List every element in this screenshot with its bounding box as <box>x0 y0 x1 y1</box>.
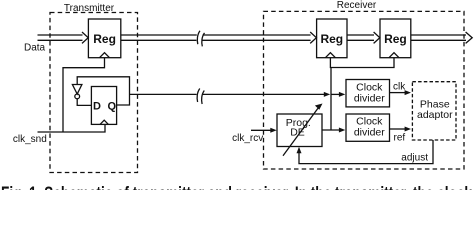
wire inverter output to D input <box>77 99 91 106</box>
svg-text:Fig. 1. Schematic of transmitt: Fig. 1. Schematic of transmitter and rec… <box>1 184 472 190</box>
arrowhead clock into node <box>324 92 330 97</box>
svg-text:Reg: Reg <box>93 32 116 46</box>
svg-text:Receiver: Receiver <box>337 0 377 11</box>
svg-text:divider: divider <box>354 127 385 139</box>
bus wire TX Reg to RX Reg1 <box>121 32 317 43</box>
clock divider 2 <box>346 114 390 141</box>
svg-text:Data: Data <box>24 43 46 54</box>
wire clk_rcv input <box>251 129 272 131</box>
long clock wire TX to RX <box>130 93 327 95</box>
break symbol on data bus <box>197 31 204 47</box>
break symbol on clock wire <box>197 89 204 105</box>
svg-text:Transmitter: Transmitter <box>64 3 115 14</box>
wire RX register clocks <box>330 58 394 68</box>
data input bus arrow <box>38 32 89 43</box>
svg-text:clk: clk <box>393 81 406 92</box>
svg-text:Reg: Reg <box>320 32 343 46</box>
wire clock node vertical <box>330 68 332 131</box>
wire Prog DE output to clock divider 2 <box>322 129 340 131</box>
svg-text:D: D <box>93 101 101 113</box>
wire clk_snd <box>38 124 106 132</box>
clock divider 1 <box>346 80 390 107</box>
svg-text:clk_rcv: clk_rcv <box>232 133 263 144</box>
wire adjust <box>299 140 433 164</box>
svg-text:adaptor: adaptor <box>417 109 453 121</box>
svg-text:DE: DE <box>290 127 305 139</box>
transmitter dashed box <box>50 13 138 173</box>
wire Q output <box>77 77 129 105</box>
svg-text:ref: ref <box>394 132 406 143</box>
phase adaptor dashed box <box>412 82 456 140</box>
wire divider2 output ref <box>390 128 406 130</box>
wire TX Reg clock to clk_snd <box>63 58 105 132</box>
output bus arrow (receiver) <box>411 32 472 43</box>
svg-text:Reg: Reg <box>384 32 407 46</box>
receiver dashed box <box>264 11 465 169</box>
D flip-flop (transmitter divider) <box>91 87 116 125</box>
wire divider1 output clk <box>390 92 406 94</box>
svg-text:clk_snd: clk_snd <box>13 134 47 145</box>
Prog. DE box <box>277 114 322 147</box>
register Reg (transmitter) <box>88 19 120 58</box>
svg-text:Q: Q <box>108 101 117 113</box>
svg-text:divider: divider <box>354 92 385 104</box>
register Reg2 (receiver) <box>380 19 411 58</box>
diagonal arrow through Prog DE <box>283 107 319 156</box>
wire node to clock divider 1 <box>331 93 340 95</box>
bus wire RX Reg1 to RX Reg2 <box>347 32 380 43</box>
svg-text:adjust: adjust <box>401 153 428 164</box>
inverter <box>72 85 82 99</box>
register Reg1 (receiver) <box>317 19 347 58</box>
